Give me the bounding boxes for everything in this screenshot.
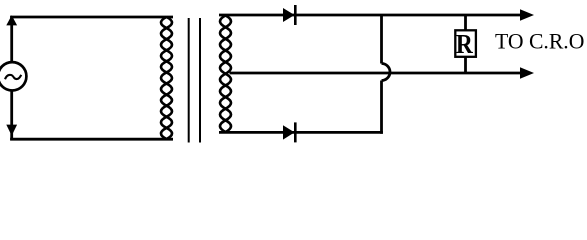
transformer T1 secondary winding [220,16,231,133]
transformer T1 core line right [199,18,201,143]
wire: center tap horizontal to output [230,72,525,75]
wire: vertical join lower segment (hop down to bottom line) [380,81,383,134]
wire: top right horizontal (secondary top to output) [219,14,524,17]
transformer T1 primary winding [161,17,172,139]
transformer T1 core line left [188,18,190,143]
arrowhead middle output [520,67,534,78]
diode D2 cathode bar [294,122,297,142]
wire: bottom right horizontal (secondary bottom) [219,131,383,134]
svg-text:R: R [456,28,473,59]
arrow up on source branch [6,15,17,25]
resistor R bottom lead [464,56,467,74]
wire: bottom left horizontal [10,138,173,141]
diode D2 (bottom) triangle [283,125,295,139]
resistor R top lead [464,15,467,31]
diode D1 (top) triangle [283,8,295,22]
AC source V1 circle [0,62,26,90]
wire: top left horizontal [10,16,173,19]
diode D1 cathode bar [294,5,297,25]
arrow down on source branch [6,125,17,136]
arrowhead top output [520,9,534,20]
wire: vertical join upper segment (top line down to hop) [380,15,383,64]
resistor R box [455,30,476,57]
wire hop over center-tap line [382,64,391,81]
AC source tilde [5,75,21,80]
wire: left vertical lower segment [10,90,13,140]
svg-text:TO C.R.O: TO C.R.O [495,30,584,54]
wire: left vertical (AC source branch) upper segment [10,16,13,63]
